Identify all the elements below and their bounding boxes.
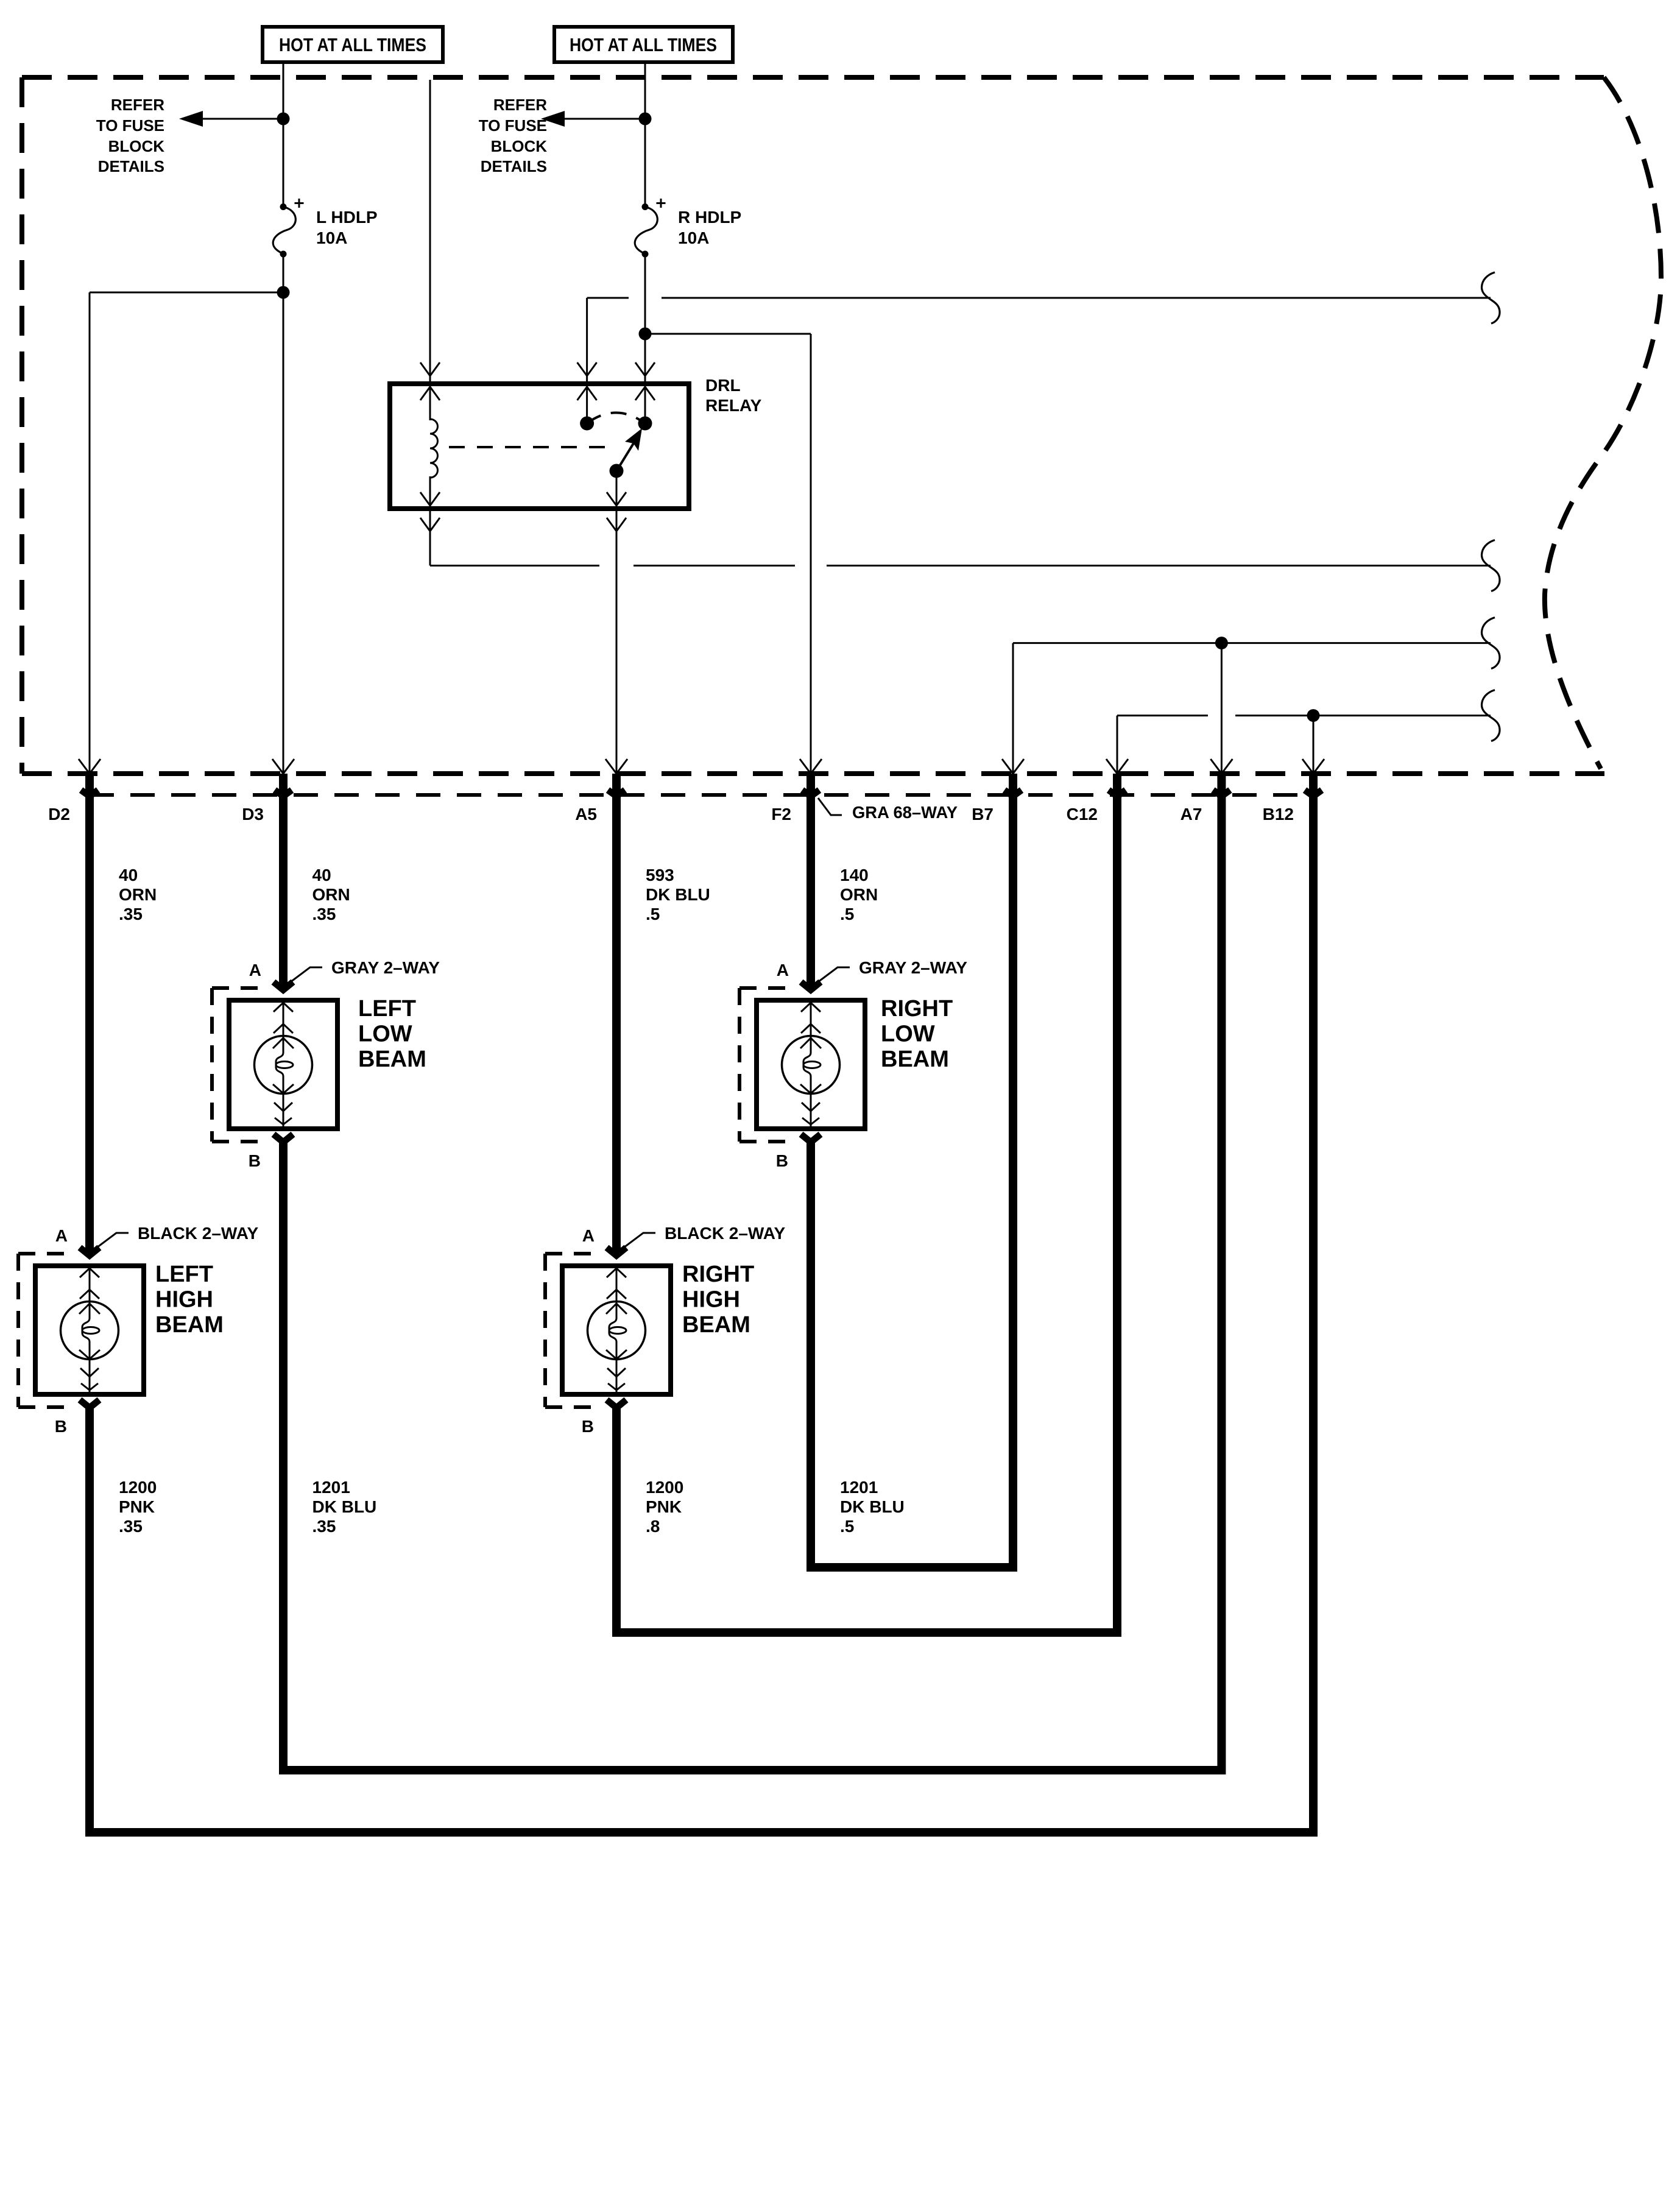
svg-text:LOW: LOW: [881, 1022, 935, 1047]
svg-text:HOT AT ALL TIMES: HOT AT ALL TIMES: [279, 34, 426, 55]
svg-text:GRAY 2–WAY: GRAY 2–WAY: [859, 958, 967, 977]
svg-text:DETAILS: DETAILS: [481, 157, 547, 175]
svg-text:1200: 1200: [119, 1478, 157, 1497]
svg-text:.35: .35: [312, 905, 336, 923]
svg-text:GRA 68–WAY: GRA 68–WAY: [852, 803, 958, 822]
svg-text:PNK: PNK: [646, 1497, 682, 1516]
svg-text:BLOCK: BLOCK: [491, 137, 548, 155]
svg-text:BEAM: BEAM: [881, 1047, 949, 1072]
svg-text:DK BLU: DK BLU: [646, 885, 710, 904]
svg-text:LOW: LOW: [358, 1022, 412, 1047]
svg-text:DETAILS: DETAILS: [98, 157, 164, 175]
svg-text:A5: A5: [575, 805, 597, 824]
svg-text:.5: .5: [646, 905, 660, 923]
svg-text:RELAY: RELAY: [705, 396, 762, 415]
svg-text:REFER: REFER: [111, 96, 164, 114]
svg-text:A: A: [777, 961, 789, 980]
svg-text:.5: .5: [840, 1517, 854, 1536]
svg-text:GRAY 2–WAY: GRAY 2–WAY: [331, 958, 440, 977]
svg-text:.35: .35: [312, 1517, 336, 1536]
svg-text:BLACK 2–WAY: BLACK 2–WAY: [665, 1224, 785, 1243]
svg-text:10A: 10A: [678, 228, 709, 247]
svg-text:ORN: ORN: [840, 885, 878, 904]
svg-text:1201: 1201: [840, 1478, 878, 1497]
svg-text:BEAM: BEAM: [155, 1312, 224, 1338]
svg-text:.8: .8: [646, 1517, 660, 1536]
svg-text:REFER: REFER: [493, 96, 547, 114]
svg-text:RIGHT: RIGHT: [682, 1262, 754, 1287]
svg-text:D3: D3: [242, 805, 264, 824]
svg-text:593: 593: [646, 866, 674, 884]
svg-text:TO FUSE: TO FUSE: [479, 116, 547, 135]
svg-text:B7: B7: [972, 805, 994, 824]
svg-text:10A: 10A: [316, 228, 347, 247]
svg-text:.35: .35: [119, 905, 143, 923]
svg-text:R HDLP: R HDLP: [678, 208, 741, 227]
svg-text:ORN: ORN: [119, 885, 157, 904]
svg-text:1200: 1200: [646, 1478, 683, 1497]
svg-text:HIGH: HIGH: [155, 1287, 213, 1313]
svg-text:40: 40: [312, 866, 331, 884]
svg-text:140: 140: [840, 866, 869, 884]
svg-text:B: B: [776, 1151, 788, 1170]
svg-text:BLOCK: BLOCK: [108, 137, 165, 155]
svg-text:A: A: [582, 1226, 595, 1245]
svg-text:B: B: [582, 1417, 594, 1436]
svg-text:40: 40: [119, 866, 138, 884]
svg-text:B12: B12: [1263, 805, 1294, 824]
svg-text:DK BLU: DK BLU: [840, 1497, 905, 1516]
svg-text:A: A: [249, 961, 261, 980]
svg-text:B: B: [55, 1417, 67, 1436]
svg-text:D2: D2: [48, 805, 70, 824]
svg-text:BLACK 2–WAY: BLACK 2–WAY: [138, 1224, 258, 1243]
svg-text:DK BLU: DK BLU: [312, 1497, 377, 1516]
svg-text:DRL: DRL: [705, 376, 741, 395]
svg-text:.5: .5: [840, 905, 854, 923]
svg-text:LEFT: LEFT: [155, 1262, 213, 1287]
svg-text:C12: C12: [1067, 805, 1098, 824]
svg-text:A7: A7: [1181, 805, 1202, 824]
svg-text:A: A: [55, 1226, 68, 1245]
svg-text:PNK: PNK: [119, 1497, 155, 1516]
svg-text:1201: 1201: [312, 1478, 350, 1497]
svg-text:BEAM: BEAM: [682, 1312, 750, 1338]
svg-text:.35: .35: [119, 1517, 143, 1536]
svg-text:F2: F2: [771, 805, 791, 824]
svg-text:BEAM: BEAM: [358, 1047, 426, 1072]
svg-text:B: B: [249, 1151, 261, 1170]
svg-text:ORN: ORN: [312, 885, 350, 904]
svg-text:L HDLP: L HDLP: [316, 208, 378, 227]
svg-text:HOT AT ALL TIMES: HOT AT ALL TIMES: [570, 34, 717, 55]
svg-text:HIGH: HIGH: [682, 1287, 740, 1313]
svg-text:LEFT: LEFT: [358, 996, 416, 1022]
svg-text:RIGHT: RIGHT: [881, 996, 953, 1022]
svg-text:TO FUSE: TO FUSE: [96, 116, 164, 135]
